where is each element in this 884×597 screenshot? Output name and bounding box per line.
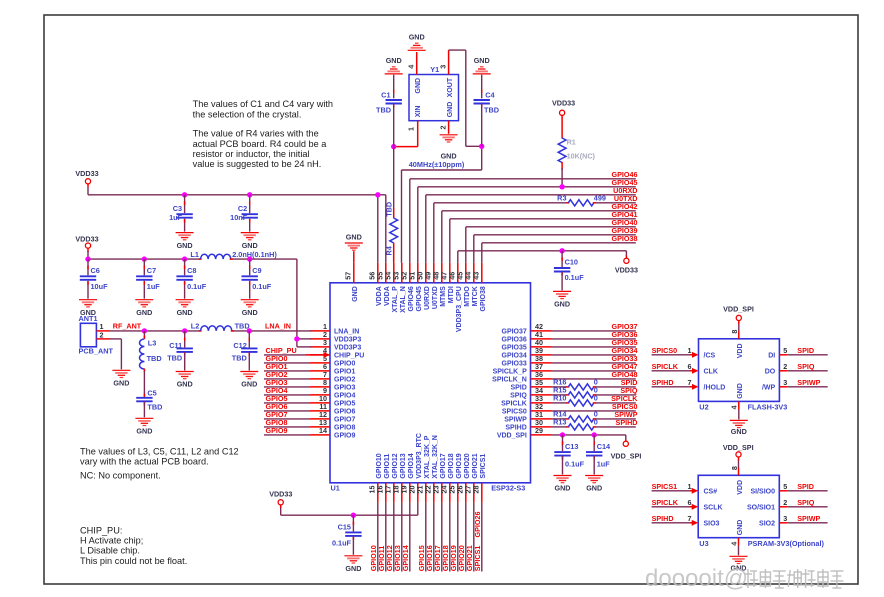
junction C13 [560, 432, 565, 437]
svg-text:XTAL_32K_P: XTAL_32K_P [424, 435, 431, 478]
svg-text:SPICLK: SPICLK [652, 362, 679, 371]
wire net GPIO10 bottom [369, 503, 378, 572]
svg-text:R4: R4 [384, 245, 393, 255]
wire net GPIO46 [410, 170, 638, 263]
svg-text:DI: DI [768, 353, 775, 360]
ground C11 [176, 372, 194, 389]
svg-text:SPICLK: SPICLK [501, 401, 527, 408]
capacitor C12 [232, 331, 258, 371]
wire net GPIO3 [264, 378, 310, 387]
svg-text:29: 29 [535, 426, 543, 435]
svg-text:GND: GND [415, 78, 422, 94]
svg-text:The values of C1 and C4 vary w: The values of C1 and C4 vary with [193, 99, 333, 109]
svg-text:C7: C7 [147, 266, 156, 275]
svg-text:57: 57 [344, 272, 353, 280]
svg-text:U0RXD: U0RXD [424, 286, 431, 310]
svg-text:0: 0 [594, 418, 598, 427]
antenna ANT1 [79, 314, 114, 355]
wire pin56 drop [377, 195, 379, 263]
wire XOUT to C4 node [449, 50, 482, 146]
wire net GPIO47 [551, 362, 638, 371]
svg-text:SPICS0: SPICS0 [502, 409, 527, 416]
wire net SPIQ U3 right [747, 498, 828, 512]
wire net SPIWP U3 right [759, 514, 828, 528]
junction rail2 C8 [182, 256, 187, 261]
svg-text:U2: U2 [699, 403, 708, 412]
svg-text:1uF: 1uF [147, 282, 161, 291]
svg-text:GND: GND [177, 241, 193, 250]
svg-text:SPID: SPID [797, 482, 814, 491]
svg-text:C12: C12 [233, 341, 246, 350]
wire net GPIO8 [264, 418, 310, 427]
wire antenna row LNA_IN [110, 330, 311, 332]
svg-text:PSRAM-3V3(Optional): PSRAM-3V3(Optional) [748, 539, 825, 548]
wire net SPID U2 right [768, 346, 828, 360]
svg-text:GPIO8: GPIO8 [334, 425, 356, 432]
svg-text:5: 5 [783, 346, 787, 355]
svg-text:SPICLK: SPICLK [652, 498, 679, 507]
svg-text:C15: C15 [338, 523, 351, 532]
svg-text:2: 2 [783, 498, 787, 507]
svg-text:GPIO36: GPIO36 [502, 337, 527, 344]
wire net GPIO0 [264, 354, 310, 363]
svg-text:GPIO13: GPIO13 [400, 453, 407, 478]
svg-text:GPIO19: GPIO19 [456, 453, 463, 478]
wire net GPIO1 [264, 362, 310, 371]
svg-text:GPIO38: GPIO38 [480, 286, 487, 311]
svg-text:0.1uF: 0.1uF [565, 459, 585, 468]
wire net GPIO7 [264, 410, 310, 419]
junction C15 [351, 513, 356, 518]
svg-text:SPIQ: SPIQ [797, 362, 815, 371]
svg-text:value is suggested to be 24 nH: value is suggested to be 24 nH. [193, 159, 322, 169]
svg-text:C6: C6 [91, 266, 100, 275]
svg-text:GPIO12: GPIO12 [392, 453, 399, 478]
svg-text:SPICLK_P: SPICLK_P [493, 369, 528, 376]
note R4 value [193, 129, 328, 170]
svg-text:NC: No component.: NC: No component. [80, 470, 161, 480]
svg-text:ANT1: ANT1 [79, 314, 98, 323]
svg-text:DO: DO [765, 369, 776, 376]
power VDD_SPI right [611, 440, 642, 461]
wire net GPIO37 [551, 322, 638, 331]
svg-text:H Activate chip;: H Activate chip; [80, 536, 143, 546]
resistor R10 [553, 394, 598, 406]
svg-text:VDD3P3_CPU: VDD3P3_CPU [456, 286, 463, 332]
capacitor C2 [230, 195, 259, 250]
wire net GPIO14 bottom [401, 503, 410, 572]
svg-text:VDD: VDD [737, 480, 744, 495]
wire net GPIO39 [474, 226, 638, 263]
wire net SPIHD U3 [652, 514, 720, 528]
svg-text:U1: U1 [331, 483, 340, 492]
svg-text:8: 8 [730, 330, 739, 334]
junction rail1 pin56 [375, 192, 380, 197]
wire VDD33 rail2 [88, 251, 297, 259]
U1 left pin stubs 1-14 [310, 322, 364, 440]
svg-text:L3: L3 [148, 339, 157, 348]
svg-text:GPIO7: GPIO7 [334, 417, 356, 424]
svg-text:C10: C10 [565, 258, 578, 267]
wire ANT pin2 to GND [110, 339, 121, 369]
svg-text:MTMS: MTMS [440, 286, 447, 307]
svg-text:XOUT: XOUT [447, 77, 454, 97]
svg-text:VDD33: VDD33 [75, 169, 98, 178]
resistor R3 [557, 194, 606, 206]
svg-text:SIO2: SIO2 [759, 521, 775, 528]
svg-text:C9: C9 [252, 266, 261, 275]
wire net GPIO48 [551, 370, 638, 379]
svg-text:TBD: TBD [384, 202, 393, 217]
wire net SPICS1 bottom [473, 503, 482, 572]
svg-text:GPIO37: GPIO37 [502, 329, 527, 336]
svg-text:GPIO38: GPIO38 [612, 234, 638, 243]
svg-text:vary with the actual PCB board: vary with the actual PCB board. [80, 457, 209, 467]
wire net SPICLK U3 [652, 498, 723, 512]
svg-text:GPIO45: GPIO45 [416, 286, 423, 311]
ground U1 pin57 [345, 233, 363, 263]
svg-text:VDD_SPI: VDD_SPI [497, 433, 527, 440]
power VDD_SPI U3 [723, 443, 754, 476]
svg-text:1: 1 [407, 127, 416, 131]
svg-text:PCB_ANT: PCB_ANT [79, 347, 114, 356]
svg-text:GPIO9: GPIO9 [266, 426, 288, 435]
svg-text:7: 7 [688, 514, 692, 523]
svg-text:3: 3 [783, 378, 787, 387]
svg-text:GND: GND [352, 286, 359, 302]
svg-text:VDD33: VDD33 [615, 266, 638, 275]
ground C14 [585, 476, 603, 493]
wire VDD_SPI row [551, 435, 626, 440]
svg-text:LNA_IN: LNA_IN [334, 329, 359, 336]
svg-text:6: 6 [688, 498, 692, 507]
svg-text:4: 4 [729, 542, 738, 546]
svg-text:CHIP_PU: CHIP_PU [334, 353, 364, 360]
svg-text:SIO3: SIO3 [704, 521, 720, 528]
svg-text:MTDO: MTDO [464, 286, 471, 307]
svg-text:VDDA: VDDA [376, 286, 383, 306]
svg-text:SPIHD: SPIHD [505, 425, 526, 432]
svg-text:6: 6 [688, 362, 692, 371]
svg-text:1: 1 [688, 482, 692, 491]
svg-text:the selection of the crystal.: the selection of the crystal. [193, 109, 302, 119]
wire XTAL_N link [402, 146, 482, 262]
wire net GPIO19 bottom [449, 503, 458, 572]
net label GPIO26 [473, 512, 482, 538]
junction C14 [592, 432, 597, 437]
wire net GPIO2 [264, 370, 310, 379]
ground C13 [554, 476, 572, 493]
svg-text:MTDI: MTDI [448, 286, 455, 303]
svg-text:SPICS1: SPICS1 [652, 482, 678, 491]
svg-text:GND: GND [554, 300, 570, 309]
svg-text:/HOLD: /HOLD [704, 385, 726, 392]
svg-text:1: 1 [688, 346, 692, 355]
svg-text:XTAL_N: XTAL_N [400, 286, 407, 313]
junction antenna C12 [247, 328, 252, 333]
svg-text:C13: C13 [565, 442, 578, 451]
svg-text:CS#: CS# [704, 489, 718, 496]
wire net GPIO12 bottom [385, 503, 394, 572]
svg-text:GPIO4: GPIO4 [334, 393, 356, 400]
svg-text:C4: C4 [485, 90, 495, 99]
svg-text:GPIO14: GPIO14 [401, 545, 410, 571]
watermark dooooit [645, 565, 843, 592]
svg-text:28: 28 [472, 486, 481, 494]
svg-text:1uF: 1uF [169, 213, 183, 222]
capacitor C1 [376, 75, 402, 147]
svg-text:0.1uF: 0.1uF [332, 539, 352, 548]
junction rail1 C3 [182, 192, 187, 197]
svg-text:SPIHD: SPIHD [616, 418, 638, 427]
svg-text:8: 8 [730, 466, 739, 470]
ground C1 [385, 56, 403, 74]
svg-text:2.0nH(0.1nH): 2.0nH(0.1nH) [232, 250, 277, 259]
svg-text:10uF: 10uF [91, 282, 109, 291]
ground Y1 pin2 [440, 135, 458, 161]
svg-text:10nF: 10nF [230, 213, 248, 222]
svg-text:RF_ANT: RF_ANT [113, 322, 142, 331]
svg-text:C1: C1 [381, 90, 390, 99]
svg-text:SPIWP: SPIWP [797, 378, 820, 387]
capacitor C14 [586, 435, 611, 475]
capacitor C3 [169, 195, 193, 250]
power VDD33 bottom [269, 490, 292, 509]
svg-text:GPIO1: GPIO1 [334, 369, 356, 376]
svg-text:GPIO20: GPIO20 [464, 453, 471, 478]
svg-text:SPIQ: SPIQ [510, 393, 527, 400]
svg-text:4: 4 [729, 406, 738, 410]
inductor L3 [140, 331, 162, 372]
svg-text:GPIO3: GPIO3 [334, 385, 356, 392]
wire net GPIO5 [264, 394, 310, 403]
svg-text:GPIO11: GPIO11 [384, 454, 391, 479]
capacitor C11 [167, 331, 193, 371]
wire net GPIO4 [264, 386, 310, 395]
wire net SPID [551, 378, 638, 387]
svg-text:VDD_SPI: VDD_SPI [723, 305, 754, 314]
ground ANT [112, 370, 130, 387]
U1 right pin stubs 42-29 [492, 322, 551, 440]
svg-text:U3: U3 [699, 539, 708, 548]
wire net GPIO16 bottom [425, 503, 434, 572]
svg-text:GND: GND [737, 520, 744, 536]
note L3 C5 values [80, 446, 239, 466]
capacitor C15 [332, 515, 362, 555]
svg-text:resistor or inductor, the init: resistor or inductor, the initial [193, 149, 310, 159]
svg-text:GPIO26: GPIO26 [473, 512, 482, 538]
svg-text:LNA_IN: LNA_IN [265, 322, 291, 331]
svg-text:SCLK: SCLK [704, 505, 723, 512]
svg-text:GPIO33: GPIO33 [502, 361, 527, 368]
svg-text:1uF: 1uF [597, 459, 611, 468]
svg-text:GPIO46: GPIO46 [408, 286, 415, 311]
svg-text:GPIO18: GPIO18 [448, 453, 455, 478]
svg-text:The value of R4 varies with th: The value of R4 varies with the [193, 129, 319, 139]
junction C1 node [391, 144, 396, 149]
svg-text:SPICS1: SPICS1 [473, 546, 482, 572]
ground C15 [344, 556, 362, 573]
wire net SPIWP U2 right [762, 378, 828, 392]
svg-text:GPIO9: GPIO9 [334, 433, 356, 440]
svg-text:3: 3 [783, 514, 787, 523]
svg-text:SO/SIO1: SO/SIO1 [747, 505, 775, 512]
wire net SPIHD [551, 418, 638, 427]
svg-text:GPIO0: GPIO0 [334, 361, 356, 368]
wire net GPIO42 [442, 202, 638, 263]
svg-text:GND: GND [242, 308, 258, 317]
ground C10 [553, 291, 571, 308]
junction rail2 C9 [247, 256, 252, 261]
svg-text:5: 5 [783, 482, 787, 491]
svg-text:This pin could not be float.: This pin could not be float. [80, 556, 187, 566]
inductor L1 [190, 250, 277, 259]
flash chip U2 [699, 339, 788, 412]
svg-text:TBD: TBD [232, 353, 247, 362]
wire net GPIO41 [450, 210, 638, 263]
svg-text:SI/SIO0: SI/SIO0 [750, 489, 775, 496]
svg-text:SPICS0: SPICS0 [652, 346, 678, 355]
capacitor C6 [79, 259, 108, 317]
Y1 pin4 stub to GND [416, 52, 418, 75]
svg-text:TBD: TBD [147, 354, 162, 363]
svg-text:VDD33: VDD33 [552, 98, 575, 107]
svg-text:XTAL_P: XTAL_P [392, 286, 399, 313]
inductor L2 [191, 322, 250, 331]
power VDD_SPI U2 [723, 305, 754, 339]
svg-text:C3: C3 [173, 204, 182, 213]
svg-text:VDD33: VDD33 [269, 490, 292, 499]
svg-text:VDD_SPI: VDD_SPI [723, 443, 754, 452]
wire pin55 drop [385, 195, 387, 263]
psram chip U3 [698, 475, 824, 548]
wire net GPIO21 bottom [465, 503, 474, 572]
wire CHIP_PU with arrow [264, 346, 330, 358]
svg-text:GND: GND [737, 383, 744, 399]
U1 bottom pin stubs 15-28 [368, 433, 488, 503]
svg-text:GND: GND [177, 308, 193, 317]
svg-text:dooooit@: dooooit@ [645, 565, 748, 592]
svg-text:SPIQ: SPIQ [797, 498, 815, 507]
svg-text:2: 2 [100, 330, 104, 339]
capacitor C5 [136, 371, 162, 417]
svg-text:7: 7 [688, 378, 692, 387]
wire net GPIO38 [482, 234, 638, 263]
power VDD33 right [615, 256, 638, 275]
Y1 pin2 stub to GND [448, 121, 450, 134]
wire VDD3P3_CPU row [458, 251, 627, 263]
svg-text:GPIO14: GPIO14 [408, 453, 415, 478]
svg-text:0.1uF: 0.1uF [252, 282, 272, 291]
svg-text:0.1uF: 0.1uF [187, 282, 207, 291]
resistor R4 [384, 147, 397, 263]
capacitor C8 [176, 259, 207, 317]
svg-text:TBD: TBD [484, 106, 499, 115]
wire net U0TXD [434, 194, 638, 263]
junction rail1 C2 [247, 192, 252, 197]
svg-text:0: 0 [594, 394, 598, 403]
svg-text:C5: C5 [147, 389, 156, 398]
svg-text:40MHz(±10ppm): 40MHz(±10ppm) [409, 160, 465, 169]
wire net GPIO15 bottom [417, 503, 426, 572]
svg-text:XTAL_32K_N: XTAL_32K_N [432, 435, 439, 478]
Y1 pin1 stub [396, 121, 418, 147]
wire VDD33 rail1 [88, 187, 386, 195]
resistor R16 [553, 378, 598, 390]
capacitor C4 [474, 75, 500, 147]
capacitor C13 [554, 435, 584, 475]
ground C5 [135, 418, 153, 435]
svg-text:VDD33: VDD33 [75, 234, 98, 243]
svg-text:FLASH-3V3: FLASH-3V3 [748, 403, 788, 412]
svg-text:GND: GND [113, 379, 129, 388]
svg-text:GND: GND [386, 56, 402, 65]
crystal Y1 [407, 65, 459, 131]
ground Y1 pin4 [408, 32, 426, 50]
svg-text:GND: GND [136, 427, 152, 436]
junction antenna L3 [142, 328, 147, 333]
svg-text:VDDA: VDDA [384, 286, 391, 306]
svg-text:C11: C11 [169, 341, 182, 350]
svg-text:GND: GND [136, 308, 152, 317]
wire net GPIO11 bottom [377, 503, 386, 572]
wire net GPIO45 [418, 178, 638, 263]
svg-text:SPIWP: SPIWP [504, 417, 527, 424]
wire net SPICS0 U2 [652, 346, 716, 360]
wire net SPICLK U2 [652, 362, 718, 376]
capacitor C9 [241, 259, 272, 317]
svg-text:SPID: SPID [797, 346, 814, 355]
wire net GPIO6 [264, 402, 310, 411]
ground U2 pin4 [729, 401, 748, 436]
ground U3 pin4 [729, 538, 747, 573]
resistor R1 (NC) [552, 98, 596, 187]
svg-text:499: 499 [594, 194, 606, 203]
wire net SPIHD U2 [652, 378, 726, 392]
svg-text:GND: GND [242, 241, 258, 250]
wire net GPIO34 [551, 346, 638, 355]
wire net GPIO18 bottom [441, 503, 450, 572]
svg-text:VDD3P3: VDD3P3 [334, 345, 361, 352]
svg-text:C2: C2 [238, 204, 247, 213]
svg-text:/CS: /CS [704, 353, 716, 360]
svg-text:10K(NC): 10K(NC) [567, 152, 596, 161]
svg-text:C8: C8 [187, 266, 196, 275]
svg-text:R3: R3 [557, 194, 566, 203]
note CHIP_PU [80, 525, 187, 566]
wire net GPIO13 bottom [393, 503, 402, 572]
junction R1 GPIO45 [559, 184, 564, 189]
svg-text:TBD: TBD [147, 403, 162, 412]
ground C4 [473, 56, 491, 74]
junction C10 [559, 248, 564, 253]
svg-text:L Disable chip.: L Disable chip. [80, 546, 140, 556]
svg-text:4: 4 [407, 65, 416, 69]
wire net GPIO9 [264, 426, 310, 435]
junction antenna C11 [182, 328, 187, 333]
svg-text:SPIWP: SPIWP [797, 514, 820, 523]
svg-text:SPICLK_N: SPICLK_N [492, 377, 527, 384]
svg-text:3: 3 [439, 65, 448, 69]
junction C4 node [479, 144, 484, 149]
svg-text:ESP32-S3: ESP32-S3 [491, 483, 525, 492]
svg-text:TBD: TBD [376, 106, 391, 115]
svg-text:GPIO10: GPIO10 [376, 453, 383, 478]
svg-text:0.1uF: 0.1uF [565, 273, 585, 282]
net label LNA_IN [265, 322, 291, 331]
svg-text:SPIHD: SPIHD [652, 378, 674, 387]
capacitor C10 [554, 251, 584, 291]
